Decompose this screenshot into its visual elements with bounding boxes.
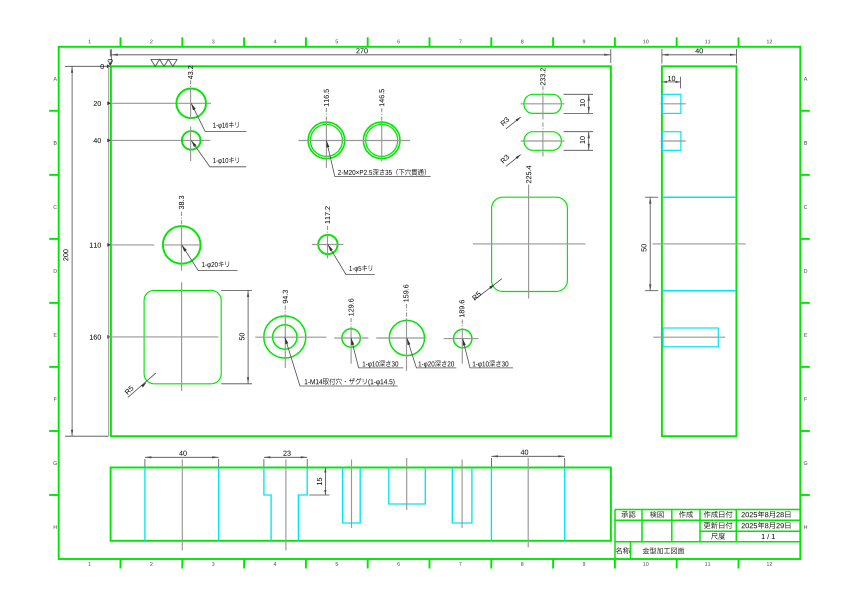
dimension 10 side view	[680, 77, 682, 89]
label 233.2	[540, 68, 545, 85]
label 225.4	[526, 166, 531, 183]
label 159.6	[403, 285, 408, 302]
bottom hidden counterbore profile	[264, 468, 271, 541]
label 116.5	[324, 89, 329, 106]
dimension 10 slot upper	[564, 93, 594, 95]
side pocket centerline	[653, 243, 746, 245]
side hidden counterbore	[663, 328, 718, 347]
leader phi5	[328, 245, 375, 275]
leader R3 upper	[506, 117, 521, 129]
hole phi10	[182, 131, 201, 150]
ordinate label 20	[94, 101, 101, 106]
dimension 40 bottom right	[490, 458, 492, 467]
leader counterbore M14	[285, 337, 398, 386]
dimension 40 side view	[661, 49, 663, 64]
leader phi20 depth20	[407, 338, 456, 368]
label 146.5	[379, 89, 384, 106]
pocket square left R5	[144, 290, 221, 383]
dimension 15 bottom	[309, 494, 329, 496]
counterbore M14	[264, 316, 306, 358]
bottom hidden pocket left walls	[144, 468, 146, 541]
ordinate label 160	[90, 335, 101, 340]
dimension 270 top	[110, 49, 112, 63]
leader M20 tapped holes	[326, 140, 430, 176]
bottom hole a centerline	[351, 460, 353, 528]
ordinate label 110	[90, 243, 101, 248]
tapped holes 2-M20	[308, 122, 345, 159]
ordinate baseline line	[108, 66, 110, 436]
slot R3 upper	[524, 94, 561, 113]
leader phi10	[191, 140, 246, 166]
slot R3 lower	[524, 132, 561, 151]
dimension 50 side view	[645, 196, 658, 198]
datum label 0 left	[100, 64, 103, 69]
hole phi20 depth20	[389, 320, 424, 355]
title block name row	[616, 547, 630, 554]
leader phi10 depth30 b	[463, 339, 513, 368]
bottom pocket right centerline	[527, 458, 529, 548]
dimension 10 slot lower	[564, 131, 594, 133]
title block grid	[615, 510, 800, 560]
label 43.2	[188, 66, 193, 79]
side pocket top line	[662, 196, 737, 198]
side pocket bottom line	[662, 290, 737, 292]
zone number labels	[53, 40, 807, 566]
bottom hidden hole phi20 depth20	[389, 468, 426, 505]
bottom hidden pocket right walls	[490, 468, 492, 541]
title block row3 labels	[711, 533, 725, 540]
hole phi16	[176, 89, 206, 119]
ordinate label 40	[93, 138, 101, 143]
label 189.6	[459, 300, 464, 317]
leader phi10 depth30 a	[351, 338, 403, 368]
hole phi5	[318, 235, 337, 254]
bottom counterbore centerline	[285, 460, 287, 551]
bottom hole phi20 centerline	[406, 458, 408, 510]
leader R3 lower	[506, 155, 521, 167]
leader phi20	[182, 245, 238, 271]
hole phi10 depth30 a	[342, 329, 360, 347]
label 38.3	[179, 196, 184, 209]
frame tick marks	[49, 37, 810, 568]
bottom hidden hole phi10 depth30 a	[343, 468, 361, 524]
bottom hole b centerline	[461, 460, 463, 528]
label 94.3	[283, 290, 288, 303]
leader R5 left	[128, 373, 156, 397]
label 117.2	[325, 206, 330, 223]
side hidden slot lower	[662, 132, 681, 151]
dimension 50 left pocket	[221, 289, 252, 291]
leader R5 right	[474, 279, 502, 301]
dimension 200 left	[65, 65, 108, 67]
pocket square right R5	[492, 197, 568, 291]
title block row1 labels	[621, 511, 635, 517]
bottom pocket left centerline	[181, 460, 183, 551]
main view part outline	[111, 66, 611, 436]
bottom hidden hole phi10 depth30 b	[452, 468, 472, 524]
hole phi20	[163, 226, 201, 264]
bottom view outline	[111, 468, 611, 541]
leader phi16	[191, 103, 246, 131]
datum label 0 top	[109, 49, 111, 56]
surface finish mark	[151, 59, 177, 66]
side hidden slot upper	[662, 94, 681, 113]
side view outline	[662, 66, 737, 436]
dimension 23 bottom	[263, 459, 265, 467]
dimension 40 bottom left	[144, 459, 146, 467]
title block row2 labels	[704, 522, 732, 529]
label 129.6	[348, 299, 353, 316]
hole phi10 depth30 b	[454, 329, 472, 347]
border frame	[59, 47, 801, 559]
